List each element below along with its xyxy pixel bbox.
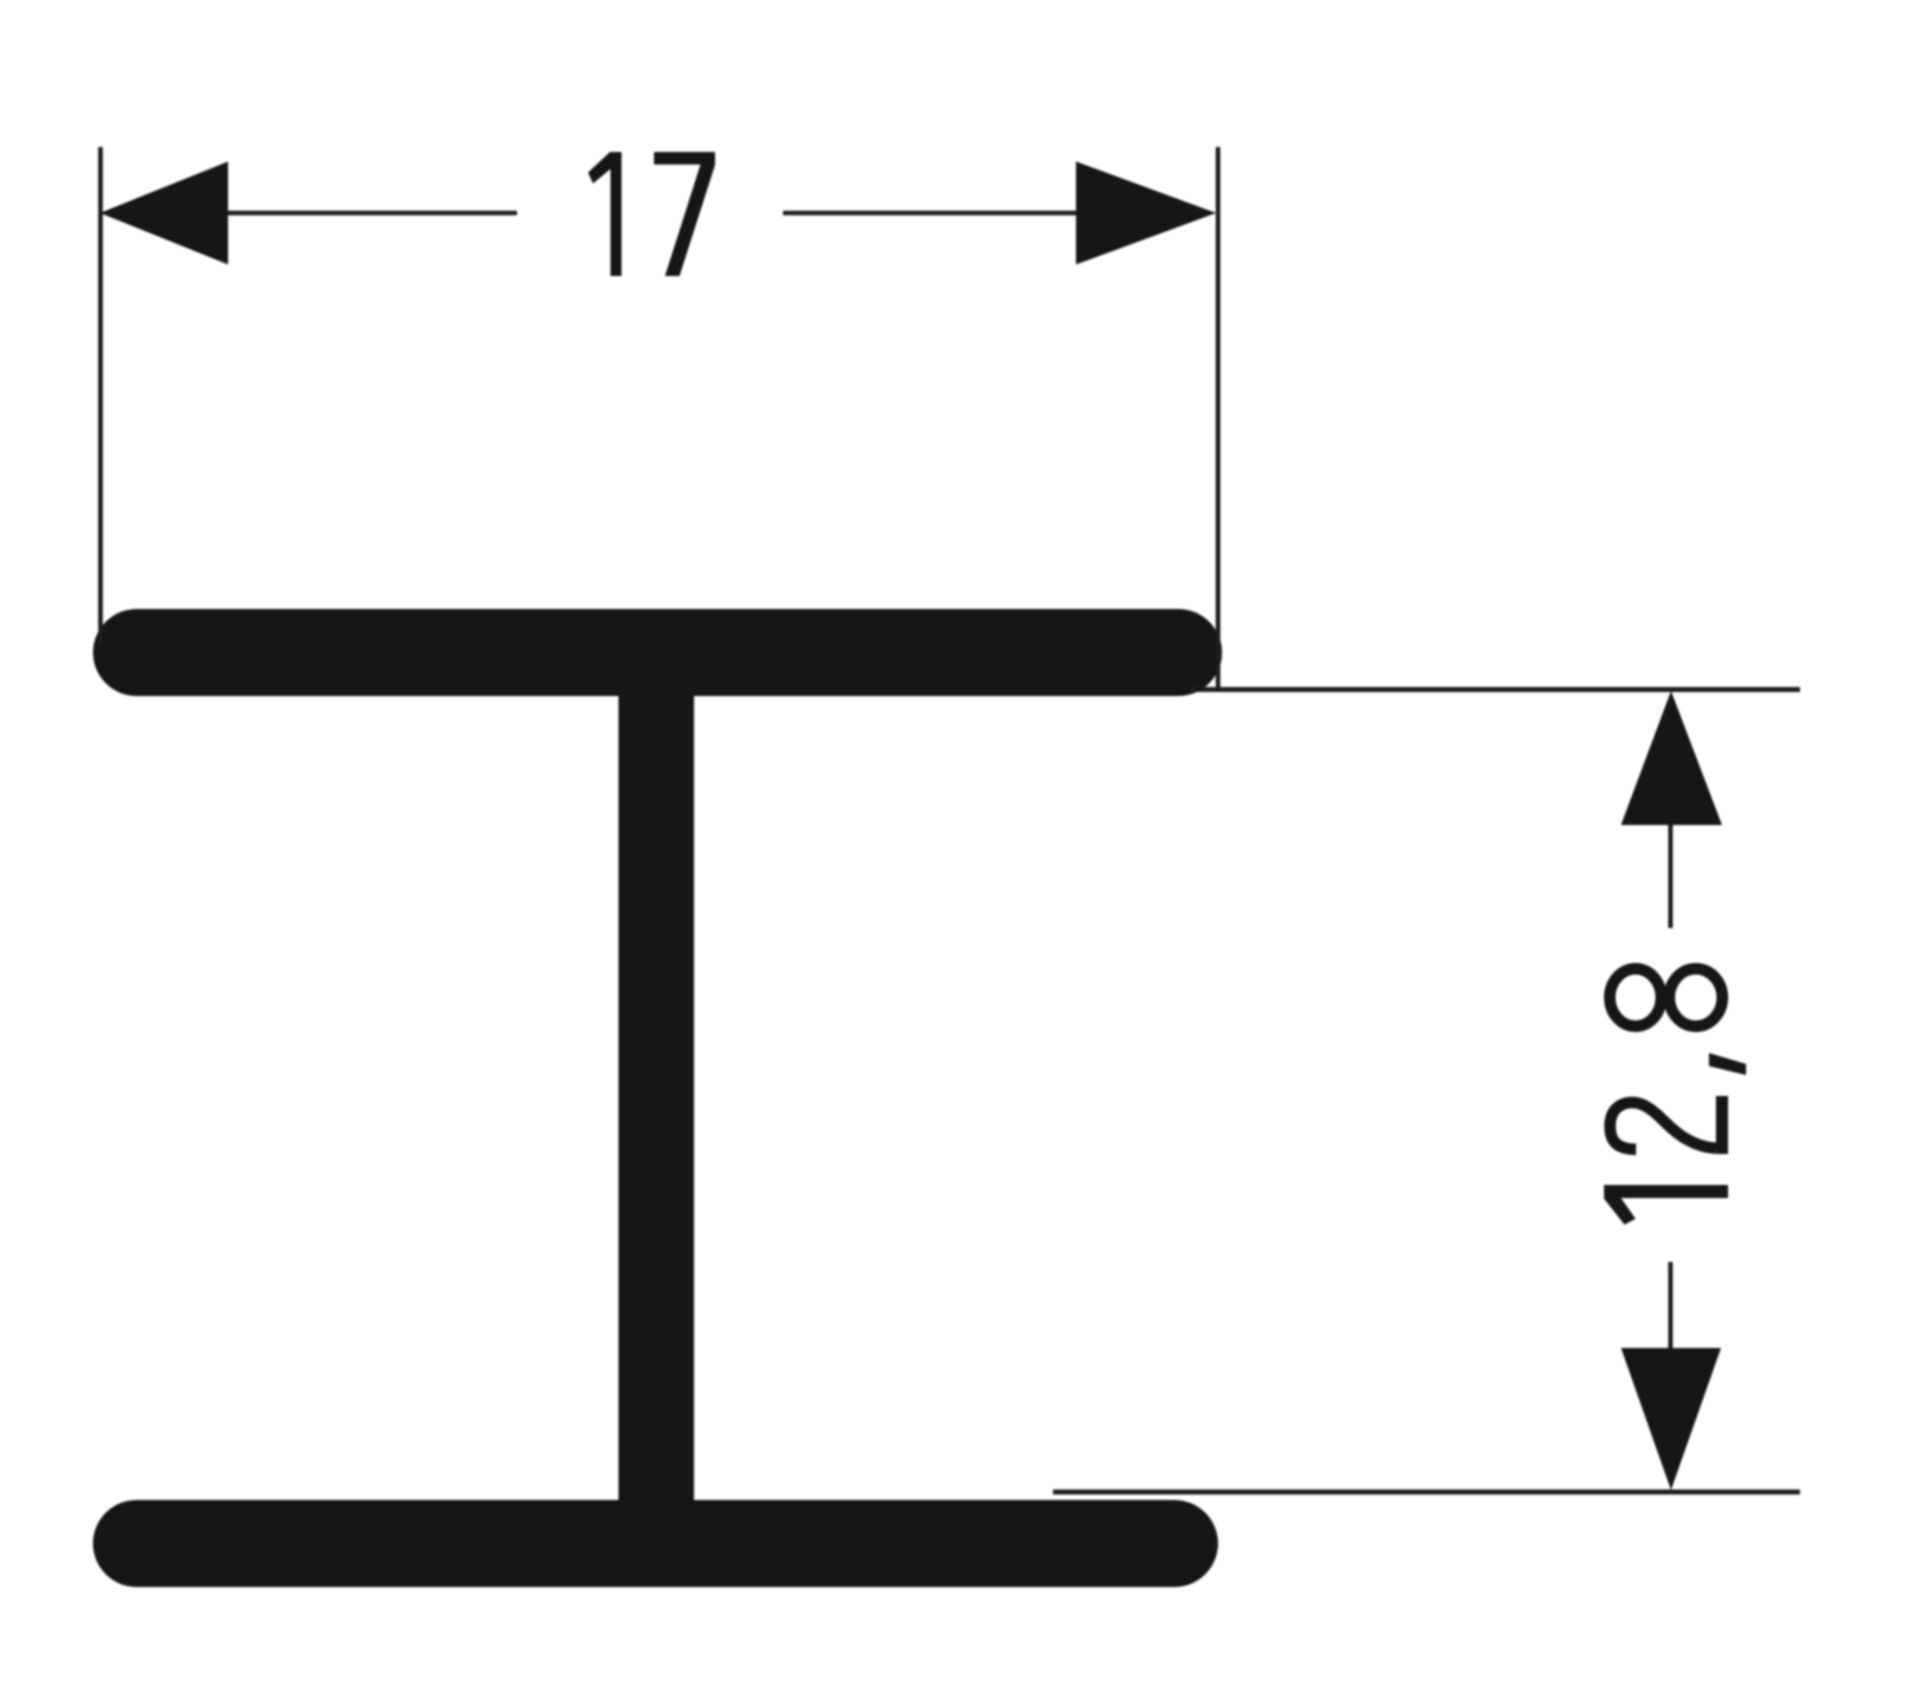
arrowhead right of dim 17: [1076, 162, 1216, 265]
profile web: [619, 680, 695, 1505]
profile top flange: [93, 609, 1222, 696]
extension line left (dim 17): [98, 147, 103, 645]
dimension line 17 right segment: [783, 211, 1080, 216]
profile bottom flange: [93, 1500, 1218, 1587]
arrowhead left of dim 17: [100, 162, 228, 265]
dimension line 12,8 upper stem: [1668, 823, 1673, 928]
arrowhead up of dim 12,8: [1621, 691, 1722, 825]
dimension line 12,8 lower stem: [1668, 1262, 1673, 1350]
extension line top (dim 12,8): [1190, 687, 1800, 692]
extension line bottom (dim 12,8): [1053, 1490, 1800, 1495]
dimension text 12,8 (rotated): [1604, 969, 1746, 1225]
dimension text 17: [588, 152, 715, 276]
extension line right (dim 17): [1216, 147, 1221, 688]
dimension line 17 left segment: [222, 211, 517, 216]
arrowhead down of dim 12,8: [1621, 1348, 1721, 1490]
